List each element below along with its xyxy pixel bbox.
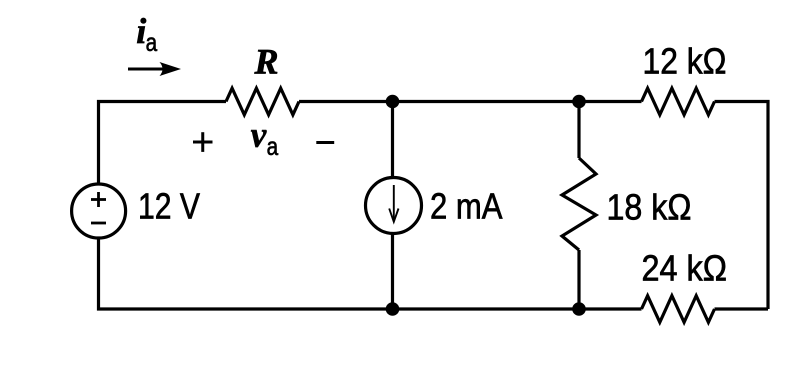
resistor 24 kOhm (642, 296, 715, 323)
voltage source plus sign (91, 192, 106, 207)
resistor R (226, 88, 299, 115)
wire bottom-right: right side to 24k resistor (715, 307, 769, 310)
svg-text:12 V: 12 V (138, 186, 200, 227)
svg-text:12 kΩ: 12 kΩ (643, 41, 727, 82)
wire top-right corner and right side down (715, 102, 769, 310)
arrow for i_a (128, 68, 168, 71)
plus sign for v_a (193, 132, 213, 152)
svg-text:2 mA: 2 mA (430, 186, 503, 227)
wire bottom: right node to middle node (393, 307, 580, 310)
svg-text:24 kΩ: 24 kΩ (642, 248, 728, 289)
svg-text:a: a (146, 29, 158, 57)
node d (bottom right junction dot) (572, 302, 586, 316)
node a (top middle junction dot) (386, 95, 400, 109)
current source I1 circle (366, 178, 422, 234)
wire middle branch lower (391, 234, 394, 309)
voltage source V1 circle (72, 184, 126, 238)
wire right branch lower (577, 250, 580, 309)
wire top-left: from voltage source top, up and right to resistor R (99, 102, 227, 184)
svg-text:R: R (254, 41, 279, 81)
voltage source minus sign (91, 222, 106, 225)
resistor 12 kOhm (642, 88, 715, 115)
node b (top right junction dot) (572, 95, 586, 109)
wire bottom-left: middle node to voltage source bottom (99, 239, 393, 310)
wire right branch upper (577, 102, 580, 159)
svg-text:a: a (267, 133, 279, 161)
minus sign for v_a (316, 141, 334, 144)
wire middle branch upper (391, 102, 394, 178)
current source arrow (389, 185, 398, 222)
wire top: right node to 12k resistor (579, 100, 642, 103)
wire top: middle node to right node (393, 100, 580, 103)
wire top: R to middle node (299, 100, 393, 103)
svg-text:18 kΩ: 18 kΩ (607, 186, 692, 227)
resistor 18 kOhm (vertical) (562, 158, 596, 250)
wire bottom: 24k to right node bottom (579, 307, 642, 310)
svg-text:v: v (251, 115, 267, 155)
node c (bottom middle junction dot) (386, 302, 400, 316)
